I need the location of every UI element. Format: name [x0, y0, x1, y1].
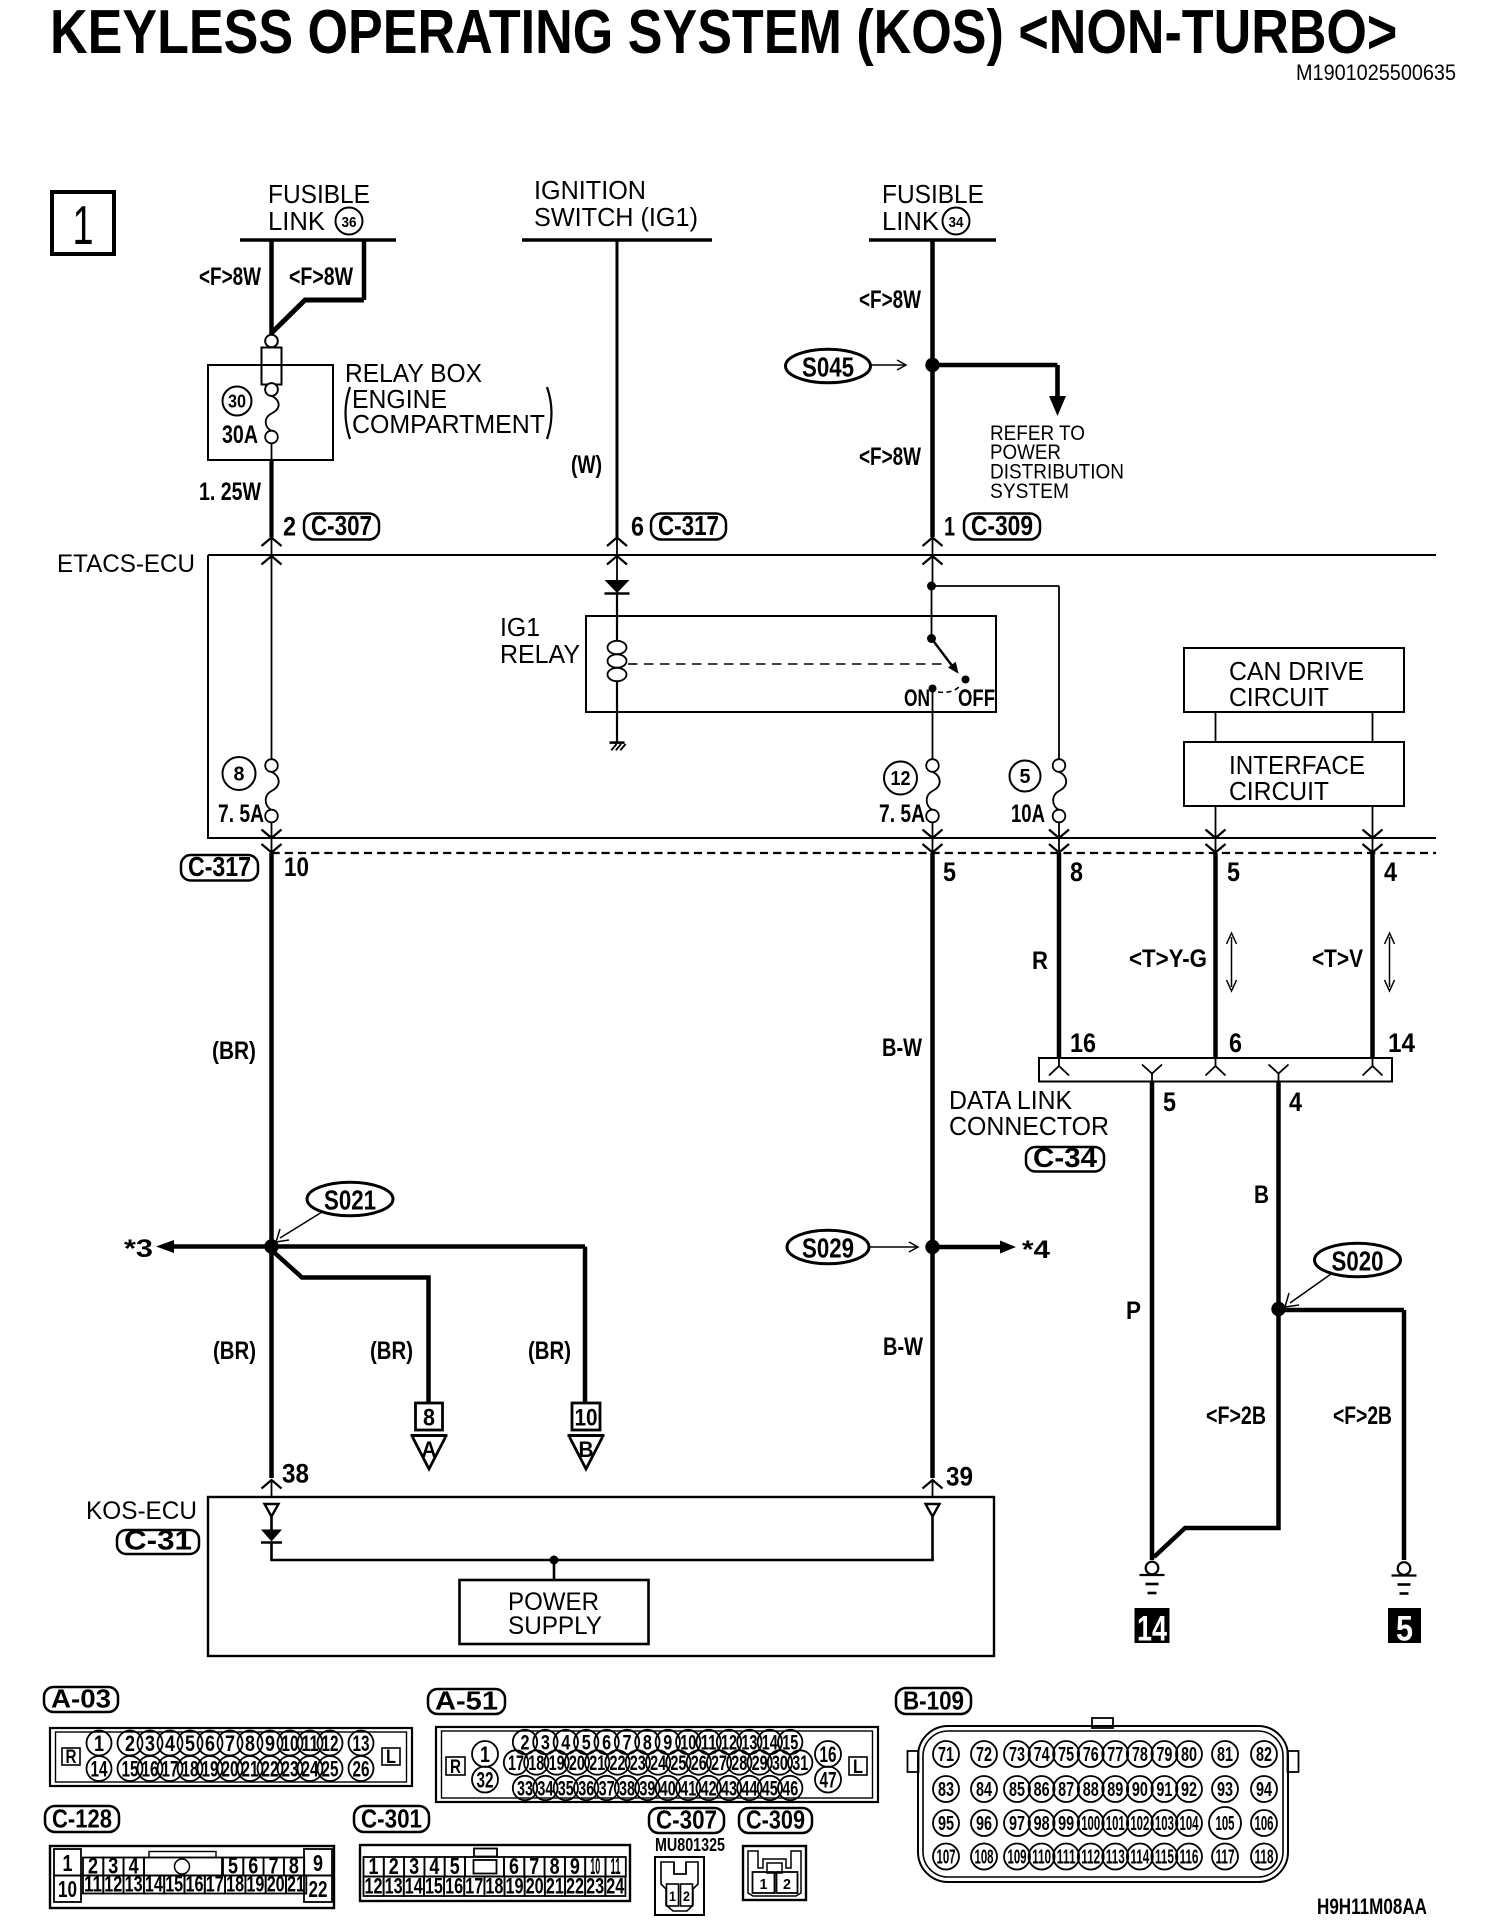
relay contact OFF [962, 676, 970, 684]
wire: fusible link 36 left drop <F>8W [269, 240, 274, 334]
svg-text:1: 1 [73, 194, 94, 256]
svg-text:111: 111 [1057, 1847, 1076, 1869]
svg-text:19: 19 [202, 1756, 219, 1781]
svg-text:22: 22 [566, 1874, 584, 1899]
svg-text:B-W: B-W [883, 1333, 923, 1361]
svg-text:8: 8 [245, 1731, 255, 1756]
svg-text:7: 7 [225, 1731, 235, 1756]
svg-text:96: 96 [976, 1813, 992, 1835]
svg-text:A-03: A-03 [51, 1684, 111, 1714]
fuse 30 circled label [223, 387, 252, 416]
svg-text:103: 103 [1155, 1813, 1174, 1835]
svg-text:33: 33 [517, 1778, 533, 1801]
svg-text:38: 38 [619, 1778, 635, 1801]
IG1 relay box [586, 616, 996, 712]
connector A-03 R mark [62, 1748, 80, 1765]
svg-text:46: 46 [782, 1778, 798, 1801]
svg-text:18: 18 [528, 1752, 544, 1775]
chevron into KOS-ECU pin 38 [262, 1480, 282, 1489]
svg-text:9: 9 [313, 1850, 323, 1876]
svg-text:2: 2 [283, 512, 296, 542]
ignition switch bus bar [522, 238, 712, 241]
svg-text:22: 22 [309, 1876, 328, 1902]
ground 14 [1146, 1562, 1159, 1575]
diode at IG1 relay coil feed [605, 580, 630, 593]
svg-text:13: 13 [385, 1874, 403, 1899]
wire: ignition switch to ETACS (W) [616, 240, 619, 537]
svg-text:80: 80 [1181, 1744, 1197, 1766]
svg-text:44: 44 [741, 1778, 757, 1801]
connector C-128 label [45, 1806, 119, 1832]
wire: col 1215 Y-G to data link connector [1213, 853, 1218, 1058]
svg-text:22: 22 [262, 1756, 279, 1781]
wires CAN drive to interface circuit [1215, 712, 1217, 742]
connector B-109 label [896, 1688, 971, 1714]
svg-text:101: 101 [1106, 1813, 1125, 1835]
svg-text:L: L [386, 1747, 396, 1768]
connector B-109 pins 107-118 [933, 1844, 959, 1870]
svg-text:17: 17 [465, 1874, 483, 1899]
svg-text:KEYLESS OPERATING SYSTEM (KOS): KEYLESS OPERATING SYSTEM (KOS) <NON-TURB… [50, 0, 1397, 67]
svg-text:(BR): (BR) [370, 1337, 413, 1365]
svg-text:B-W: B-W [882, 1034, 922, 1062]
svg-text:30: 30 [228, 392, 246, 412]
terminal 10 to sheet B [572, 1403, 600, 1430]
svg-text:108: 108 [975, 1847, 994, 1869]
splice S020 [1315, 1243, 1401, 1277]
svg-text:S021: S021 [324, 1185, 376, 1216]
svg-text:M1901025500635: M1901025500635 [1296, 60, 1456, 85]
connector chevrons col 1215.5 out of ETACS [1206, 830, 1226, 839]
svg-text:77: 77 [1107, 1744, 1123, 1766]
svg-text:(BR): (BR) [528, 1337, 571, 1365]
ground 5 [1398, 1562, 1411, 1575]
connector chevrons col 933 into ETACS [923, 538, 943, 547]
interface circuit box [1184, 742, 1404, 806]
KOS-ECU pin 38 input triangle [265, 1504, 279, 1517]
title: KEYLESS OPERATING SYSTEM (KOS) <NON-TURBO> [50, 0, 1397, 67]
svg-text:17: 17 [206, 1872, 224, 1897]
connector C-309 label [739, 1808, 812, 1833]
wire: diode to power supply rail [270, 1543, 273, 1561]
connector C-301 housing [360, 1845, 630, 1901]
relay switch arm [927, 634, 936, 643]
wire: relay feed node to switch [931, 586, 933, 639]
svg-text:26: 26 [691, 1752, 707, 1775]
svg-text:24: 24 [650, 1752, 666, 1775]
svg-text:5: 5 [943, 857, 956, 887]
svg-text:12: 12 [322, 1731, 339, 1756]
connector A-51 pins 33-46 [513, 1776, 537, 1800]
svg-text:116: 116 [1179, 1847, 1198, 1869]
svg-text:88: 88 [1083, 1779, 1099, 1801]
node: power supply tap [550, 1556, 559, 1565]
svg-text:CONNECTOR: CONNECTOR [949, 1111, 1109, 1141]
svg-text:11: 11 [302, 1731, 319, 1756]
svg-text:(BR): (BR) [212, 1037, 256, 1065]
wire: fusible link 34 drop <F>8W upper [930, 240, 935, 365]
svg-text:28: 28 [731, 1752, 747, 1775]
svg-text:12: 12 [104, 1872, 122, 1897]
relay contact ON [929, 685, 937, 693]
svg-text:4: 4 [1289, 1087, 1302, 1117]
svg-text:C-317: C-317 [658, 510, 719, 541]
svg-text:22: 22 [610, 1752, 626, 1775]
svg-text:79: 79 [1156, 1744, 1172, 1766]
fuse 5 circled label [1010, 761, 1041, 792]
svg-text:12: 12 [891, 768, 911, 790]
wire: data link pin 5 P run to ground [1150, 1082, 1155, 1561]
fuse 12 element [926, 759, 939, 772]
svg-text:98: 98 [1034, 1813, 1050, 1835]
wire: fusible link 36 right branch <F>8W [362, 240, 367, 300]
svg-text:16: 16 [186, 1872, 204, 1897]
fusible link body rectangle [262, 348, 282, 385]
svg-text:COMPARTMENT: COMPARTMENT [352, 409, 545, 439]
wire: fusible link 34 drop <F>8W lower [930, 365, 935, 537]
svg-text:15: 15 [165, 1872, 183, 1897]
svg-text:A: A [422, 1437, 437, 1462]
svg-text:18: 18 [226, 1872, 244, 1897]
svg-text:1. 25W: 1. 25W [199, 478, 261, 506]
wire: relay coil to ground [616, 712, 618, 743]
svg-text:ETACS-ECU: ETACS-ECU [57, 550, 195, 578]
connector A-51 housing [436, 1727, 878, 1802]
fuse 12 circled label [884, 762, 917, 795]
svg-text:SWITCH (IG1): SWITCH (IG1) [534, 202, 698, 232]
connector C-301 cells row 2 [364, 1877, 384, 1897]
svg-text:C-309: C-309 [971, 510, 1033, 541]
svg-text:11: 11 [84, 1872, 102, 1897]
wire: col 271 to KOS-ECU pin 38 [269, 1247, 274, 1479]
svg-text:17: 17 [162, 1756, 179, 1781]
svg-text:13: 13 [125, 1872, 143, 1897]
connector C-307 label [649, 1808, 724, 1833]
svg-text:(W): (W) [571, 451, 602, 479]
svg-text:1: 1 [94, 1731, 104, 1756]
svg-text:20: 20 [222, 1756, 239, 1781]
svg-text:40: 40 [660, 1778, 676, 1801]
svg-text:85: 85 [1009, 1779, 1025, 1801]
svg-text:75: 75 [1058, 1744, 1074, 1766]
svg-text:H9H11M08AA: H9H11M08AA [1317, 1894, 1427, 1919]
svg-text:92: 92 [1181, 1779, 1197, 1801]
svg-text:10: 10 [58, 1876, 77, 1902]
svg-text:45: 45 [762, 1778, 778, 1801]
connector A-51 pins 1,32,16,47 [472, 1741, 498, 1767]
svg-text:25: 25 [322, 1756, 339, 1781]
svg-text:ON: ON [904, 685, 930, 712]
node: S029 junction [925, 1240, 939, 1254]
wire: relay ON contact to fuse 12 [932, 689, 934, 760]
svg-text:17: 17 [508, 1752, 524, 1775]
svg-text:24: 24 [606, 1874, 625, 1899]
svg-text:B: B [579, 1437, 594, 1462]
svg-text:21: 21 [242, 1756, 259, 1781]
svg-text:82: 82 [1256, 1744, 1272, 1766]
svg-text:C-309: C-309 [746, 1805, 805, 1835]
page number box 1 [52, 192, 114, 254]
chevron pin 5 outgoing [1142, 1065, 1162, 1074]
svg-text:20: 20 [526, 1874, 544, 1899]
svg-text:91: 91 [1156, 1779, 1172, 1801]
svg-text:5: 5 [1020, 766, 1031, 788]
chevron pin 14 incoming [1372, 1058, 1374, 1066]
svg-text:C-34: C-34 [1033, 1142, 1097, 1173]
svg-text:LINK: LINK [268, 206, 326, 236]
svg-text:16: 16 [820, 1742, 837, 1767]
svg-text:MU801325: MU801325 [655, 1835, 725, 1855]
svg-text:13: 13 [353, 1731, 370, 1756]
svg-text:20: 20 [267, 1872, 285, 1897]
power supply box [460, 1580, 649, 1644]
relay box (engine compartment) outline [208, 365, 333, 460]
connector chevrons col 1059 out of ETACS [1049, 830, 1069, 839]
node: S045 junction [925, 358, 939, 372]
svg-text:71: 71 [938, 1744, 954, 1766]
data link connector strip [1039, 1058, 1392, 1082]
svg-text:81: 81 [1217, 1744, 1233, 1766]
svg-text:1: 1 [669, 1888, 676, 1904]
connector ref C-34 [1026, 1147, 1104, 1172]
svg-text:10: 10 [575, 1405, 598, 1432]
svg-text:8: 8 [423, 1405, 435, 1432]
chevron pin 4 outgoing [1269, 1065, 1289, 1074]
svg-text:KOS-ECU: KOS-ECU [86, 1497, 197, 1525]
svg-text:IG1: IG1 [500, 612, 540, 642]
connector chevrons col 1372.5 out of ETACS [1363, 830, 1383, 839]
svg-text:37: 37 [599, 1778, 615, 1801]
svg-text:2: 2 [683, 1888, 690, 1904]
svg-text:90: 90 [1132, 1779, 1148, 1801]
svg-text:83: 83 [938, 1779, 954, 1801]
svg-text:<F>8W: <F>8W [859, 286, 921, 314]
connector ref C-31 [117, 1530, 199, 1554]
svg-text:6: 6 [1229, 1028, 1242, 1058]
fuse 30 element [265, 383, 278, 396]
svg-text:105: 105 [1216, 1813, 1235, 1835]
svg-text:23: 23 [586, 1874, 604, 1899]
svg-text:21: 21 [546, 1874, 564, 1899]
svg-text:IGNITION: IGNITION [534, 175, 646, 205]
svg-text:L: L [853, 1757, 863, 1778]
svg-text:39: 39 [639, 1778, 655, 1801]
svg-text:36: 36 [342, 214, 357, 231]
connector C-301 cells row 1 [364, 1857, 384, 1877]
svg-text:B: B [1254, 1181, 1269, 1209]
svg-text:43: 43 [721, 1778, 737, 1801]
svg-text:16: 16 [445, 1874, 463, 1899]
svg-text:97: 97 [1009, 1813, 1025, 1835]
node: relay feed junction [927, 582, 936, 591]
node: S020 junction [1271, 1302, 1285, 1316]
svg-text:8: 8 [234, 764, 245, 786]
connector C-128 cells row 1 [54, 1849, 81, 1876]
svg-text:34: 34 [537, 1778, 553, 1801]
svg-text:<F>8W: <F>8W [199, 263, 261, 291]
svg-text:19: 19 [246, 1872, 264, 1897]
svg-text:95: 95 [938, 1813, 954, 1835]
svg-text:19: 19 [506, 1874, 524, 1899]
svg-text:12: 12 [365, 1874, 383, 1899]
connector chevrons col 932.5 out of ETACS [923, 830, 943, 839]
svg-text:94: 94 [1256, 1779, 1273, 1801]
connector ref C-307 [304, 514, 379, 540]
svg-text:CIRCUIT: CIRCUIT [1229, 682, 1329, 712]
wire: col 1372 V to data link connector [1370, 853, 1375, 1058]
bidirectional arrow V [1389, 937, 1391, 987]
svg-text:3: 3 [145, 1731, 155, 1756]
svg-text:15: 15 [425, 1874, 443, 1899]
svg-text:2: 2 [125, 1731, 135, 1756]
wire: S020 right branch <F>2B [1279, 1308, 1405, 1313]
svg-text:5: 5 [185, 1731, 195, 1756]
svg-text:114: 114 [1130, 1847, 1150, 1869]
svg-text:5: 5 [1227, 857, 1240, 887]
connector A-51 pins 17-31 [504, 1750, 528, 1774]
fusible link 34 bus bar [869, 238, 996, 241]
connector A-03 housing [50, 1728, 412, 1786]
connector C-301 label [354, 1806, 429, 1832]
svg-text:38: 38 [282, 1459, 309, 1489]
splice S045 [786, 349, 871, 383]
svg-text:18: 18 [182, 1756, 199, 1781]
svg-text:72: 72 [976, 1744, 992, 1766]
svg-text:CIRCUIT: CIRCUIT [1229, 776, 1329, 806]
svg-text:14: 14 [405, 1874, 424, 1899]
svg-text:4: 4 [1384, 857, 1397, 887]
node: S021 junction [264, 1239, 278, 1253]
svg-text:6: 6 [205, 1731, 215, 1756]
svg-text:S029: S029 [802, 1233, 854, 1264]
connector A-51 pins 2-15 [513, 1730, 537, 1754]
svg-text:34: 34 [949, 214, 965, 231]
svg-text:S020: S020 [1332, 1246, 1384, 1277]
svg-text:<T>V: <T>V [1312, 945, 1363, 973]
KOS-ECU box outline [208, 1497, 994, 1656]
connector ref C-317 bottom [181, 855, 258, 881]
wire: col 933 B-W lower run [930, 1247, 935, 1478]
svg-text:1: 1 [63, 1850, 73, 1876]
svg-text:*4: *4 [1022, 1236, 1050, 1264]
svg-text:14: 14 [145, 1872, 164, 1897]
svg-text:<F>2B: <F>2B [1206, 1402, 1266, 1430]
svg-text:R: R [66, 1747, 77, 1768]
svg-text:14: 14 [1137, 1610, 1167, 1649]
connector C-309 housing [743, 1846, 806, 1900]
svg-text:SUPPLY: SUPPLY [508, 1612, 602, 1640]
wire: col 271 (BR) run to S021 [269, 853, 274, 1247]
svg-text:21: 21 [287, 1872, 305, 1897]
svg-text:<F>2B: <F>2B [1333, 1402, 1392, 1430]
connector chevrons col 271.5 out of ETACS [262, 830, 282, 839]
svg-text:5: 5 [1396, 1610, 1413, 1649]
svg-text:15: 15 [122, 1756, 139, 1781]
chevron into KOS-ECU pin 39 [923, 1480, 943, 1489]
svg-text:SYSTEM: SYSTEM [990, 480, 1069, 503]
connector B-109 pins 83-94 [933, 1776, 959, 1802]
svg-text:76: 76 [1083, 1744, 1099, 1766]
svg-text:41: 41 [680, 1778, 696, 1801]
ETACS connector dashed boundary C-317 [272, 852, 1437, 854]
relay coil [616, 593, 618, 641]
svg-text:117: 117 [1216, 1847, 1235, 1869]
svg-text:10: 10 [282, 1731, 299, 1756]
connector B-109 pins 95-106 [933, 1810, 959, 1836]
svg-text:78: 78 [1132, 1744, 1148, 1766]
KOS-ECU pin 39 input triangle [926, 1504, 940, 1517]
bidirectional arrow Y-G [1231, 937, 1233, 987]
svg-text:C-317: C-317 [188, 851, 251, 882]
diode inside KOS-ECU [270, 1517, 273, 1530]
connector B-109 pins 71-82 [933, 1741, 959, 1767]
svg-text:1: 1 [480, 1742, 490, 1767]
connector A-51 L mark [849, 1757, 867, 1775]
svg-text:36: 36 [578, 1778, 594, 1801]
svg-text:84: 84 [976, 1779, 993, 1801]
connector chevrons col 271 into ETACS [262, 538, 282, 547]
wire: S021 to *3 arrow [174, 1244, 272, 1249]
svg-text:P: P [1126, 1297, 1141, 1325]
svg-text:99: 99 [1058, 1813, 1074, 1835]
wire: S021 right branch to terminal B [272, 1244, 586, 1249]
wire: data link pin 4 B run [1276, 1082, 1281, 1310]
svg-text:102: 102 [1130, 1813, 1149, 1835]
svg-text:29: 29 [752, 1752, 768, 1775]
svg-text:110: 110 [1032, 1847, 1051, 1869]
wire: col 1059 R to data link connector [1057, 853, 1062, 1058]
svg-text:<F>8W: <F>8W [289, 263, 353, 291]
svg-text:39: 39 [946, 1462, 973, 1492]
svg-text:23: 23 [630, 1752, 646, 1775]
wire: S021 lower branch to terminal A [272, 1250, 429, 1404]
connector ref C-317 top [651, 514, 726, 540]
svg-text:7. 5A: 7. 5A [879, 800, 925, 828]
svg-text:16: 16 [1070, 1028, 1096, 1058]
svg-text:100: 100 [1081, 1813, 1100, 1835]
svg-text:C-31: C-31 [124, 1525, 192, 1556]
svg-text:14: 14 [91, 1756, 109, 1781]
svg-text:*3: *3 [124, 1235, 153, 1263]
fuse 8 element [271, 583, 273, 760]
svg-text:B-109: B-109 [903, 1686, 964, 1716]
svg-text:14: 14 [1388, 1028, 1415, 1058]
svg-text:9: 9 [265, 1731, 275, 1756]
svg-text:C-307: C-307 [311, 510, 372, 541]
svg-text:10A: 10A [1011, 800, 1045, 828]
svg-text:74: 74 [1034, 1744, 1051, 1766]
fuse 5 element [1053, 759, 1066, 772]
svg-text:26: 26 [353, 1756, 370, 1781]
chevron pin 6 incoming [1215, 1058, 1217, 1066]
svg-text:10: 10 [284, 852, 309, 882]
svg-text:112: 112 [1081, 1847, 1100, 1869]
svg-text:FUSIBLE: FUSIBLE [268, 179, 370, 209]
svg-text:5: 5 [1163, 1087, 1176, 1117]
connector B-109 housing [1092, 1718, 1113, 1728]
connector C-307 housing [655, 1857, 704, 1915]
svg-text:RELAY: RELAY [500, 639, 580, 669]
svg-text:S045: S045 [802, 352, 854, 383]
wire: branch to power distribution system [933, 363, 1058, 368]
svg-text:(BR): (BR) [213, 1337, 256, 1365]
svg-text:35: 35 [558, 1778, 574, 1801]
svg-text:19: 19 [549, 1752, 565, 1775]
connector A-03 label [44, 1687, 118, 1712]
connector A-51 label [428, 1689, 505, 1714]
svg-text:A-51: A-51 [435, 1686, 498, 1716]
svg-text:1: 1 [760, 1876, 768, 1893]
